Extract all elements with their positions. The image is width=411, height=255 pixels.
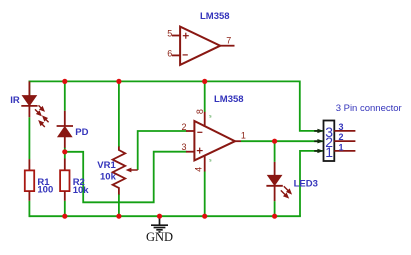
wire R2 to bottom rail (64, 201, 66, 216)
LED3 body (266, 175, 282, 185)
wire right top drop to connector pin3 (300, 81, 323, 131)
potentiometer VR1 zigzag (113, 147, 126, 195)
junction dot bottom rail pin4 (202, 214, 207, 219)
LED3 emission arrows (281, 186, 291, 197)
svg-text:2: 2 (339, 132, 344, 142)
PD incident arrows (39, 117, 48, 127)
svg-text:s: s (209, 157, 212, 162)
LED3 cathode stub (274, 186, 276, 201)
junction dot PD R2 (62, 149, 67, 154)
photodiode PD anode stub (64, 137, 66, 148)
IR LED cathode stub (28, 106, 30, 117)
svg-text:6: 6 (167, 48, 172, 58)
resistor R1 (25, 159, 34, 201)
svg-text:3 Pin connector: 3 Pin connector (336, 103, 402, 114)
svg-text:8: 8 (195, 109, 205, 114)
connector entry arrow pin 2 (314, 139, 324, 143)
svg-text:100: 100 (37, 185, 53, 196)
IR LED anode stub (28, 81, 30, 96)
op-amp U1b pin 3 stub (186, 151, 194, 153)
wire IR to R1 (28, 117, 30, 159)
U1b minus sign (197, 131, 202, 133)
wire opamp output to connector pin2 (241, 140, 323, 142)
connector entry arrow pin 3 (314, 129, 324, 133)
junction dot top rail pin8 (202, 79, 207, 84)
3 pin connector body (324, 121, 335, 162)
junction dot top rail PD (62, 79, 67, 84)
op-amp U1b pin 8 stub (204, 112, 206, 127)
junction dot bottom rail GND (157, 214, 162, 219)
junction dot bottom rail LED3 (272, 214, 277, 219)
connector entry arrow pin 1 (314, 149, 324, 153)
photodiode PD body (57, 126, 73, 137)
photodiode PD cathode stub (64, 111, 66, 126)
U1a minus sign (183, 54, 188, 56)
op-amp U1a pin 7 stub (220, 45, 234, 47)
junction dot bottom rail R2 (62, 214, 67, 219)
connector pad stub 3 (334, 130, 355, 132)
svg-text:1: 1 (325, 144, 333, 160)
svg-text:1: 1 (339, 143, 344, 153)
wire top rail (29, 80, 299, 82)
svg-text:LM358: LM358 (200, 11, 230, 22)
wire connector pin1 to bottom rail (300, 151, 323, 216)
op-amp U1b pin 2 stub (186, 130, 194, 132)
svg-text:10k: 10k (100, 172, 117, 183)
wire VR1 column lower (118, 194, 120, 216)
wire opamp pin4 to bottom rail (204, 172, 206, 217)
wire opamp pin8 to top rail (204, 81, 206, 112)
wire IR column upper (28, 81, 30, 97)
svg-text:LM358: LM358 (214, 94, 244, 105)
resistor R2 (60, 159, 69, 201)
svg-text:LED3: LED3 (294, 178, 318, 189)
wire output to LED3 (274, 141, 276, 162)
LED3 anode stub (274, 162, 276, 176)
svg-text:3: 3 (339, 122, 344, 132)
svg-text:PD: PD (75, 127, 88, 138)
wire VR1 wiper to opamp pin2 (138, 131, 187, 170)
op-amp U1b pin 4 stub (204, 155, 206, 172)
op-amp U1a pin 5 stub (172, 35, 180, 37)
IR LED emission arrows (35, 105, 44, 115)
potentiometer VR1 wiper arrow (126, 168, 138, 173)
wire LED3 to bottom rail (274, 201, 276, 216)
svg-text:IR: IR (10, 95, 20, 106)
svg-text:10k: 10k (73, 185, 90, 196)
junction dot bottom rail VR1 (116, 214, 121, 219)
svg-text:2: 2 (182, 122, 187, 132)
svg-text:VR1: VR1 (97, 160, 116, 171)
svg-text:5: 5 (167, 29, 172, 39)
wire R1 to bottom rail (28, 201, 30, 217)
svg-text:7: 7 (226, 36, 231, 46)
junction dot output LED3 (272, 139, 277, 144)
wire PD junction to opamp pin3 (65, 152, 187, 203)
op-amp U1a pin 6 stub (172, 54, 180, 56)
U1b plus sign (197, 148, 203, 154)
junction dot top rail VR1 (116, 79, 121, 84)
op-amp U1b pin 1 stub (235, 140, 241, 142)
wire bottom rail (29, 215, 301, 217)
svg-text:GND: GND (146, 230, 173, 244)
svg-text:1: 1 (241, 130, 246, 140)
ground symbol (151, 217, 168, 232)
svg-text:3: 3 (182, 142, 187, 152)
connector pad stub 2 (334, 140, 355, 142)
wire top rail to PD (64, 81, 66, 110)
IR LED body (21, 96, 37, 106)
op-amp U1b triangle (194, 121, 235, 160)
op-amp U1a triangle (180, 27, 220, 65)
svg-text:4: 4 (194, 167, 204, 172)
wire PD to junction (64, 148, 66, 159)
wire VR1 column upper (118, 81, 120, 147)
U1a plus sign (183, 33, 189, 39)
connector pad stub 1 (334, 150, 355, 152)
svg-text:s: s (209, 114, 212, 119)
